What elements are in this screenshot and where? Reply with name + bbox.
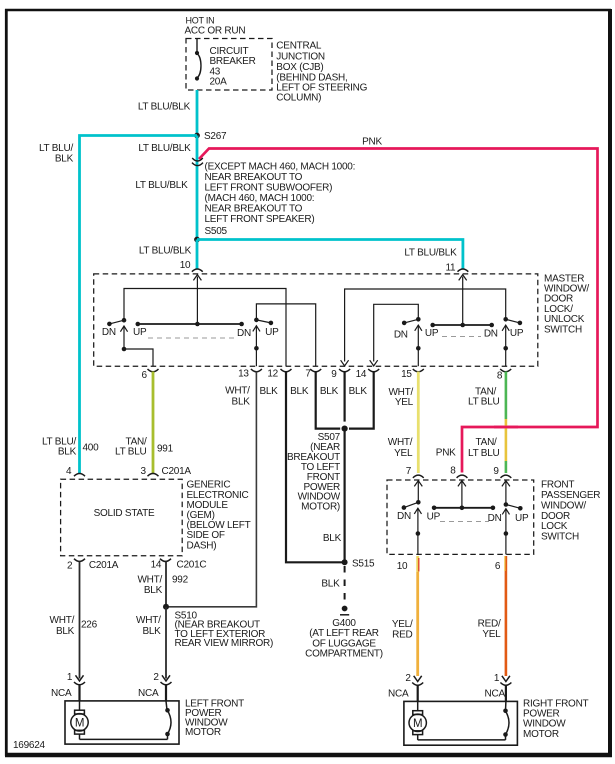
svg-text:LT BLU/: LT BLU/ — [39, 143, 73, 154]
master rocker 2 (pivot, UP contact, arrow, to pin 13) — [253, 318, 273, 367]
svg-text:BOX (CJB): BOX (CJB) — [276, 62, 323, 73]
circuit breaker 43 — [195, 39, 201, 81]
GEM bottom pin connectors — [74, 559, 171, 562]
svg-text:BLK: BLK — [349, 386, 368, 397]
svg-text:C201C: C201C — [177, 559, 207, 570]
svg-text:DN: DN — [394, 329, 408, 340]
svg-text:BLK: BLK — [232, 396, 251, 407]
left motor M symbol — [71, 701, 168, 739]
svg-text:LT BLU: LT BLU — [468, 448, 500, 459]
master rocker 3 (pivot, DN contact, arrow, to pin 15) — [402, 317, 422, 366]
svg-text:UP: UP — [133, 327, 147, 338]
svg-text:9: 9 — [493, 466, 499, 477]
master switch internals : feed arrow pin 10 — [193, 275, 201, 324]
svg-text:BLK: BLK — [144, 585, 163, 596]
right front power window motor box — [404, 701, 518, 745]
master bus pin 9 to pivot4 — [345, 289, 506, 362]
right motor pin 1 connector (arrow + cup) — [500, 676, 511, 685]
svg-text:10: 10 — [397, 561, 408, 572]
svg-text:S505: S505 — [205, 226, 228, 237]
node S515 — [342, 559, 348, 565]
master switch internals : feed arrow pin 11 — [459, 275, 467, 325]
svg-text:WHT/: WHT/ — [388, 437, 413, 448]
svg-text:992: 992 — [172, 575, 189, 586]
svg-text:14: 14 — [356, 369, 367, 380]
svg-text:S267: S267 — [204, 131, 227, 142]
wire PNK overlay at crossing — [494, 426, 518, 429]
second row colour labels above passenger switch — [388, 437, 500, 459]
svg-text:YEL: YEL — [394, 448, 413, 459]
svg-text:LT BLU/BLK: LT BLU/BLK — [138, 102, 191, 113]
svg-text:1: 1 — [494, 673, 500, 684]
svg-text:9: 9 — [331, 369, 337, 380]
GEM top pin connectors — [74, 473, 159, 476]
svg-text:REAR VIEW MIRROR): REAR VIEW MIRROR) — [175, 638, 274, 649]
svg-text:8: 8 — [450, 466, 456, 477]
svg-text:BLK: BLK — [259, 386, 278, 397]
wire WHT/BLK GEM pin 2 to left motor pin 1 — [79, 562, 81, 679]
master bottom pin connectors (cups) — [148, 369, 512, 372]
passenger DN/UP labels — [397, 511, 529, 524]
passenger rocker left (pivot, DN contact, arrow, to pin 10) — [402, 500, 422, 554]
wire WHT/BLK pin 13 to S510 — [166, 372, 256, 607]
front passenger window/door lock switch box — [387, 480, 534, 554]
GEM generic electronic module box — [61, 479, 183, 556]
svg-text:4: 4 — [66, 466, 72, 477]
svg-text:CENTRAL: CENTRAL — [276, 41, 322, 52]
svg-text:11: 11 — [445, 262, 456, 273]
svg-text:NCA: NCA — [388, 688, 409, 699]
svg-text:BLK: BLK — [320, 386, 339, 397]
svg-text:LT BLU: LT BLU — [468, 397, 500, 408]
passenger pin 9 entry arrow — [502, 481, 510, 505]
svg-text:8: 8 — [497, 371, 503, 382]
svg-text:14: 14 — [151, 559, 162, 570]
svg-text:UP: UP — [515, 513, 529, 524]
left front power window motor box — [65, 701, 179, 744]
svg-text:C201A: C201A — [89, 560, 119, 571]
wire BLK S507 to S515 — [344, 429, 346, 563]
svg-text:DN: DN — [484, 329, 498, 340]
svg-text:WHT/: WHT/ — [225, 386, 250, 397]
svg-text:7: 7 — [406, 466, 412, 477]
svg-text:TAN/: TAN/ — [476, 437, 498, 448]
master rocker 4 (pivot, UP contact, arrow, to pin 8) — [502, 317, 522, 366]
svg-text:LT BLU/BLK: LT BLU/BLK — [135, 180, 188, 191]
wire colour labels below master switch — [225, 386, 499, 408]
passenger pin 8 entry arrow — [458, 481, 466, 508]
svg-text:NCA: NCA — [138, 688, 159, 699]
master window/door lock/unlock switch box — [94, 274, 538, 366]
passenger switch top pin labels — [406, 466, 500, 478]
svg-text:PASSENGER: PASSENGER — [541, 490, 600, 501]
svg-text:COLUMN): COLUMN) — [276, 92, 321, 103]
wire WHT/YEL pin 15 to passenger pin 7 — [417, 372, 420, 474]
svg-text:ACC OR RUN: ACC OR RUN — [185, 26, 246, 37]
svg-text:(EXCEPT MACH 460, MACH 1000:: (EXCEPT MACH 460, MACH 1000: — [205, 162, 356, 173]
passenger pin 7 entry arrow — [414, 481, 422, 503]
svg-text:1: 1 — [67, 672, 73, 683]
svg-text:NCA: NCA — [485, 688, 506, 699]
passenger contact bar — [432, 506, 495, 511]
node S510 — [163, 604, 169, 610]
svg-text:RED: RED — [392, 629, 412, 640]
wire BLK pin 7 to S507 — [316, 372, 341, 429]
svg-text:991: 991 — [157, 443, 174, 454]
svg-text:BLK: BLK — [321, 579, 340, 590]
master bus pin 14 to pivot3 — [374, 304, 419, 361]
master contact bar right (UP3 to DN4) — [430, 323, 494, 328]
ground G400 — [342, 606, 348, 612]
svg-text:WHT/: WHT/ — [50, 615, 75, 626]
wire LT BLU/BLK main down S267 to S505 — [196, 136, 199, 240]
svg-text:JUNCTION: JUNCTION — [276, 51, 325, 62]
svg-text:LEFT FRONT SPEAKER): LEFT FRONT SPEAKER) — [205, 214, 315, 225]
svg-text:UP: UP — [427, 512, 441, 523]
svg-text:2: 2 — [67, 560, 73, 571]
master bus pivot2 to pin 7 — [256, 304, 315, 366]
node S507 — [342, 426, 348, 432]
svg-text:20A: 20A — [210, 77, 228, 88]
wire BLK pin 9 to S507 — [344, 372, 346, 422]
svg-text:LT BLU/BLK: LT BLU/BLK — [138, 143, 191, 154]
master pin 14 exit arrow — [370, 360, 378, 366]
svg-text:6: 6 — [142, 370, 148, 381]
GEM wire labels top — [42, 437, 147, 458]
svg-text:SWITCH: SWITCH — [544, 325, 582, 336]
wire BLK pin 12 to S515 — [286, 372, 345, 563]
svg-text:7: 7 — [305, 369, 311, 380]
svg-text:YEL: YEL — [482, 629, 501, 640]
hot in label — [185, 16, 246, 37]
right motor M symbol — [409, 701, 506, 740]
left motor pin 2 connector (arrow + cup) — [161, 675, 172, 684]
svg-text:6: 6 — [495, 561, 501, 572]
svg-text:BLK: BLK — [56, 626, 75, 637]
node S505 — [194, 237, 200, 243]
wire WHT/BLK GEM pin 14 to S510 — [165, 562, 167, 607]
svg-text:2: 2 — [153, 672, 159, 683]
svg-text:FRONT: FRONT — [541, 479, 574, 490]
svg-text:DN: DN — [397, 511, 411, 522]
svg-text:DN: DN — [102, 327, 116, 338]
svg-text:SOLID STATE: SOLID STATE — [94, 508, 155, 519]
svg-text:DN: DN — [488, 513, 502, 524]
master DN/UP labels — [102, 327, 524, 340]
wire YEL/RED passenger pin 10 to right motor pin 2 — [416, 556, 419, 572]
wire TAN/LT BLU pin 6 to GEM pin 3 — [152, 372, 155, 474]
svg-text:NCA: NCA — [51, 688, 72, 699]
svg-text:M: M — [75, 718, 84, 730]
svg-text:SWITCH: SWITCH — [541, 532, 579, 543]
svg-text:LEFT FRONT SUBWOOFER): LEFT FRONT SUBWOOFER) — [205, 183, 333, 194]
right motor pin 2 connector (arrow + cup) — [412, 676, 423, 685]
master rocker 1 (pivot, DN contact, arrow, to pin 6) — [107, 318, 153, 366]
wire BLK pin 14 to S507 — [349, 372, 374, 429]
wire LT BLU/BLK branch left to GEM pin 4 — [80, 136, 198, 474]
left motor pin 1 connector (arrow + cup) — [74, 675, 85, 684]
svg-text:UP: UP — [510, 328, 524, 339]
svg-text:BLK: BLK — [290, 386, 309, 397]
passenger bottom pin numbers — [397, 561, 501, 572]
connector pin 10 master — [192, 269, 203, 272]
svg-text:UNLOCK: UNLOCK — [544, 314, 585, 325]
svg-text:M: M — [413, 718, 422, 730]
svg-text:WINDOW/: WINDOW/ — [541, 500, 586, 511]
svg-text:169624: 169624 — [13, 740, 46, 751]
svg-text:YEL: YEL — [395, 397, 414, 408]
passenger switch top pin connectors — [413, 475, 511, 478]
svg-text:226: 226 — [81, 619, 98, 630]
svg-text:BLK: BLK — [142, 626, 161, 637]
svg-text:LT BLU/BLK: LT BLU/BLK — [404, 247, 457, 258]
passenger rocker right (pivot, UP contact, arrow, to pin 6) — [502, 502, 522, 554]
svg-text:HOT IN: HOT IN — [186, 16, 215, 26]
left motor arc contact — [165, 701, 171, 739]
note text except mach 460 — [205, 162, 356, 238]
master pin 9 exit arrow — [341, 360, 349, 366]
svg-text:13: 13 — [238, 368, 249, 379]
svg-text:C201A: C201A — [162, 466, 192, 477]
wire LT BLU/BLK S505 down to master pin 10 — [196, 240, 199, 269]
svg-text:UP: UP — [265, 327, 279, 338]
svg-text:BLK: BLK — [55, 154, 74, 165]
svg-text:WHT/: WHT/ — [136, 615, 161, 626]
svg-text:MOTOR: MOTOR — [523, 729, 559, 740]
svg-text:BLK: BLK — [58, 447, 77, 458]
svg-text:UP: UP — [425, 328, 439, 339]
svg-text:LT BLU: LT BLU — [115, 447, 147, 458]
svg-text:BLK: BLK — [323, 533, 342, 544]
svg-text:WHT/: WHT/ — [137, 574, 162, 585]
breakout symbol at PNK takeout — [192, 158, 203, 166]
svg-text:(MACH 460, MACH 1000:: (MACH 460, MACH 1000: — [205, 193, 315, 204]
node S267 — [194, 133, 200, 139]
wire TAN/LT BLU pin 8 to passenger pin 9 (green/yellow segments) — [505, 372, 508, 420]
master contact bar left (UP1 to DN2) — [136, 322, 244, 327]
wire RED/YEL passenger pin 6 to right motor pin 1 — [505, 556, 508, 676]
S507 splice note — [287, 432, 341, 513]
svg-text:15: 15 — [401, 369, 412, 380]
wire LT BLU/BLK from CJB down to S267 — [196, 90, 199, 136]
svg-text:400: 400 — [83, 443, 100, 454]
svg-text:3: 3 — [141, 466, 147, 477]
master bus pivot1 to pin 12 — [124, 289, 286, 367]
right motor arc contact — [503, 701, 509, 740]
svg-text:DASH): DASH) — [187, 540, 217, 551]
svg-text:MOTOR: MOTOR — [185, 727, 221, 738]
svg-text:DN: DN — [237, 328, 251, 339]
wire WHT/BLK S510 to left motor pin 2 — [165, 607, 167, 679]
central junction box CJB (dashed) — [186, 39, 272, 91]
svg-text:NEAR BREAKOUT TO: NEAR BREAKOUT TO — [205, 172, 303, 183]
svg-text:PNK: PNK — [362, 137, 382, 148]
GEM pin labels top — [66, 466, 191, 477]
svg-text:12: 12 — [267, 368, 278, 379]
svg-text:2: 2 — [405, 673, 411, 684]
svg-text:NEAR BREAKOUT TO: NEAR BREAKOUT TO — [205, 204, 303, 215]
wire BLK dashed S515 to G400 — [344, 566, 346, 605]
svg-text:COMPARTMENT): COMPARTMENT) — [305, 649, 383, 660]
svg-text:MOTOR): MOTOR) — [301, 502, 340, 513]
passenger internal divider dashes — [440, 521, 489, 523]
svg-text:LOCK: LOCK — [541, 521, 568, 532]
svg-text:LT BLU/BLK: LT BLU/BLK — [139, 246, 192, 257]
master bottom pin numbers — [142, 368, 503, 381]
svg-text:10: 10 — [180, 260, 191, 271]
connector pin 11 master — [458, 269, 469, 272]
svg-text:S515: S515 — [352, 558, 375, 569]
master internal divider dashes — [148, 337, 236, 339]
wire LT BLU/BLK S505 right to master pin 11 — [197, 240, 463, 269]
svg-text:PNK: PNK — [436, 448, 456, 459]
wire PNK from breakout to right and down to passenger switch pin 8 — [199, 149, 598, 473]
